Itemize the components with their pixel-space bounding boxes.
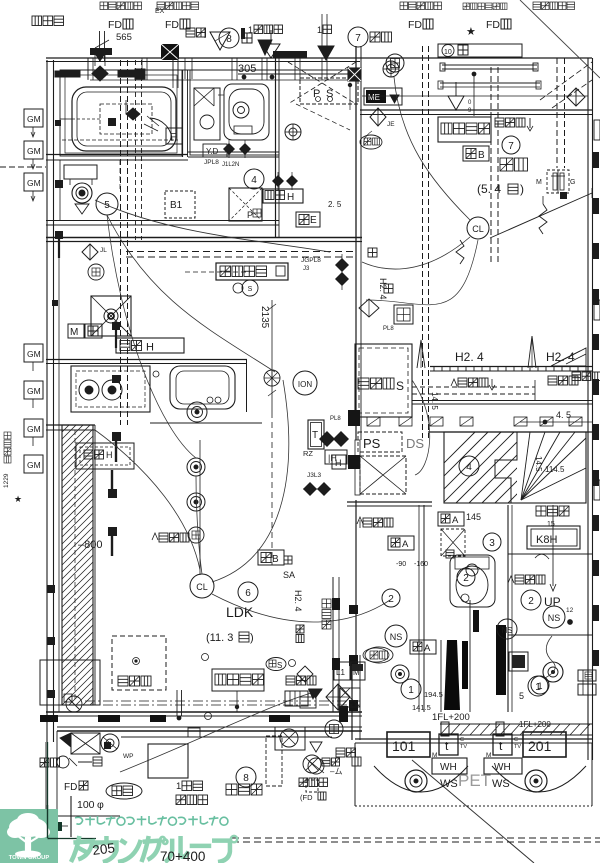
left wall black T marks [55, 118, 116, 258]
PS DS labels [358, 432, 424, 452]
bathtub [60, 87, 176, 151]
hatch band corner bottom [40, 660, 100, 705]
floor dir LDK [152, 533, 189, 542]
svg-text:6: 6 [245, 588, 251, 599]
swoop bath to hall [95, 200, 330, 252]
swoop pet curve [412, 380, 430, 475]
svg-text:P: P [313, 88, 320, 100]
circled 1 b [531, 676, 549, 694]
svg-text:CL: CL [196, 582, 208, 592]
meter circle mid [391, 665, 409, 683]
tenB box LDK [258, 550, 284, 565]
wall bottom right block [355, 739, 592, 743]
wall balcony hatched below yoshitsu [430, 367, 592, 372]
svg-text:F: F [170, 132, 176, 143]
num 14.5 [430, 392, 439, 410]
svg-text:1: 1 [537, 681, 542, 691]
ikkaiyou label [176, 781, 208, 805]
frame corner over logo [48, 805, 59, 839]
terrace label [226, 784, 262, 795]
svg-text:GM: GM [27, 178, 41, 188]
svg-text:Y.D: Y.D [206, 147, 219, 156]
dim line 305 [238, 63, 356, 79]
kabemikiri box right [438, 117, 491, 142]
yoshitsu horiz line [362, 95, 588, 97]
speaker sym3 [187, 493, 205, 511]
svg-text:B1: B1 [170, 200, 183, 211]
rei circle bottom [325, 720, 343, 738]
dashed line hall [185, 271, 250, 273]
wall ldk closet double [347, 502, 432, 506]
rei circle top [386, 54, 404, 72]
svg-text:194.5: 194.5 [424, 690, 443, 699]
LDK label [206, 604, 254, 644]
svg-text:RZ: RZ [303, 449, 313, 458]
yuka-ue label [186, 28, 206, 38]
GM meter box mid 4 [24, 455, 43, 473]
tesuri label [536, 506, 569, 516]
P-ou box [229, 188, 262, 221]
num 145 [466, 512, 481, 522]
manji box small [359, 299, 413, 332]
svg-text:CL: CL [472, 224, 484, 234]
NS circle stairhall [543, 521, 574, 628]
svg-text:14. 5: 14. 5 [430, 392, 439, 410]
gaikouyou label [32, 16, 64, 26]
swoop hall to kitchen [107, 215, 275, 372]
rei circle2 [264, 370, 280, 386]
circled 6 [238, 582, 258, 602]
svg-text:H2. 4: H2. 4 [293, 590, 303, 612]
wall stair top [428, 431, 592, 433]
wall bottom left double band [46, 712, 362, 731]
201 box [523, 732, 566, 757]
swoop CL down [362, 237, 470, 269]
svg-text:14.5: 14.5 [534, 456, 543, 472]
svg-text:K8H: K8H [536, 534, 557, 546]
circled 2 stairhall [521, 590, 541, 610]
svg-text:TV: TV [514, 744, 521, 750]
svg-text:J3L3: J3L3 [307, 472, 321, 479]
monohoshi ladder box [285, 689, 318, 706]
svg-text:FD: FD [64, 782, 77, 793]
kuchiB boxes [578, 670, 596, 695]
GM meter box top 3 [24, 173, 43, 201]
yukaue bottom [336, 748, 361, 766]
circled 4 small [233, 280, 258, 296]
GM meter box mid 2 [24, 381, 43, 408]
pergola diamond [326, 684, 350, 722]
black bar under stairhall [496, 625, 506, 695]
T box [307, 416, 349, 479]
WH box mid [325, 450, 347, 464]
slogan hitowo machiwo [75, 816, 228, 826]
svg-text:A: A [402, 539, 409, 550]
top texts raku1 [100, 2, 199, 10]
svg-text:NS: NS [548, 613, 561, 623]
fd box bottom [60, 733, 188, 778]
wall left outer double [47, 60, 54, 742]
monohoshi dashed box [112, 636, 166, 690]
svg-text:5: 5 [519, 691, 524, 701]
room line ldk [58, 242, 60, 712]
svg-text:JE: JE [387, 121, 395, 128]
svg-text:15: 15 [547, 521, 555, 528]
wall washroom bottom [188, 152, 279, 157]
utility frame [300, 645, 441, 680]
svg-text:4: 4 [251, 175, 257, 186]
svg-text:WP: WP [123, 753, 133, 760]
svg-text:P: P [247, 210, 253, 220]
top black diamond [92, 55, 108, 81]
svg-text:FD: FD [486, 19, 500, 31]
dashed overhang band [126, 252, 356, 258]
town group logo [0, 809, 58, 863]
top triangle marker3 [448, 82, 464, 110]
svg-text:C: C [460, 737, 464, 743]
svg-text:–ム: –ム [330, 767, 342, 776]
svg-text:ME: ME [368, 93, 380, 102]
circled 3 [483, 533, 501, 551]
swoop left long [196, 476, 202, 574]
svg-text:NS: NS [501, 626, 512, 635]
top beam yoshitsu [440, 63, 538, 71]
meter circle b [525, 770, 547, 792]
svg-text:GM: GM [27, 386, 41, 396]
speaker sym2 [187, 458, 205, 476]
svg-text:1: 1 [408, 685, 414, 696]
svg-text:A: A [424, 643, 431, 654]
gesui vertical text [3, 432, 11, 488]
svg-text:B: B [272, 554, 279, 565]
room line washroom inner [190, 70, 279, 155]
svg-text:(11. 3: (11. 3 [206, 632, 233, 644]
svg-text:1: 1 [248, 25, 253, 35]
svg-text:JL: JL [100, 247, 107, 254]
terrace inner dashes [46, 731, 282, 816]
bath inner dashes [62, 139, 178, 141]
wall wc bottom double [46, 221, 279, 226]
svg-text:FD: FD [108, 19, 122, 31]
circled 1 a [401, 679, 421, 699]
stair arrow UP [535, 505, 561, 609]
kyuto H box [116, 338, 184, 354]
townGroup watermark katakana [71, 836, 237, 862]
svg-text:GM: GM [27, 114, 41, 124]
H2.4 right [546, 350, 575, 364]
svg-text:305: 305 [238, 63, 256, 75]
svg-text:145: 145 [466, 512, 481, 522]
jinka label [40, 756, 102, 768]
wall vertical dashed pair x425 [423, 46, 429, 438]
svg-text:S: S [248, 286, 253, 293]
wall yoshitsu top double [360, 110, 592, 115]
jinka circle bottom [303, 755, 342, 776]
svg-text:EX: EX [155, 8, 165, 15]
svg-text:PL8: PL8 [383, 326, 394, 332]
YD box [203, 144, 227, 157]
utility left symbols [300, 742, 326, 802]
circled 7 top [348, 27, 392, 47]
svg-text:NS: NS [390, 632, 403, 642]
yoshitsu label [500, 158, 528, 171]
ME black box [364, 88, 402, 105]
swoop center long [212, 380, 289, 582]
kucho oval [360, 135, 382, 149]
svg-text:205: 205 [92, 840, 116, 858]
svg-text:J3: J3 [303, 266, 310, 272]
bottom 205 [92, 840, 116, 858]
svg-text:8: 8 [243, 773, 249, 784]
manji box dashed right [536, 170, 575, 193]
svg-text:TOWN GROUP: TOWN GROUP [9, 855, 50, 861]
outdoor unit fan [275, 727, 305, 750]
svg-text:FD: FD [165, 19, 179, 31]
wall kitchen top double [46, 360, 247, 364]
dashed double bottom [232, 838, 600, 842]
circled 4 stair [459, 456, 479, 476]
svg-text:★: ★ [14, 494, 22, 504]
wall top main line [46, 58, 592, 62]
num 4.5 right [520, 410, 592, 424]
-800 label [78, 539, 102, 551]
svg-text:JPL8: JPL8 [204, 159, 219, 166]
wall x336 lower [332, 577, 340, 712]
swoop LDK big [95, 215, 200, 570]
star left [14, 494, 22, 504]
washbasin hall [285, 124, 301, 140]
swoop bottom left [120, 690, 322, 772]
F box [166, 128, 182, 144]
room line bath inner [60, 70, 182, 156]
GM meter box mid 1 [24, 344, 43, 371]
diamond below ME [364, 108, 396, 146]
dark box stairhall [509, 652, 528, 671]
svg-text:M: M [70, 327, 78, 338]
dashed pair x494 [491, 67, 498, 262]
right wall tick marks [592, 152, 599, 666]
kitchen burners [79, 380, 122, 400]
nurien dashed band [412, 380, 535, 400]
squiggle stairhall [545, 636, 555, 678]
svg-text:★: ★ [466, 26, 476, 38]
hatched wall band [62, 401, 93, 740]
svg-text:PS: PS [363, 436, 381, 451]
tenB box right [463, 146, 489, 161]
svg-text:H2. 4: H2. 4 [546, 350, 575, 364]
svg-text:H: H [146, 342, 154, 354]
swoop top right [394, 77, 470, 220]
svg-text:PL8: PL8 [330, 416, 341, 422]
svg-text:TV: TV [460, 744, 467, 750]
tenA box 3 [410, 640, 436, 654]
top EX black box [155, 8, 179, 60]
svg-text:7: 7 [355, 33, 361, 44]
svg-text:DS: DS [406, 436, 424, 451]
black sq bottom [48, 742, 112, 839]
svg-text:70+400: 70+400 [160, 849, 205, 863]
svg-text:(FD: (FD [300, 793, 313, 802]
ga below [284, 556, 292, 564]
svg-text:M: M [536, 179, 542, 186]
room line top inner1 [60, 70, 360, 80]
svg-text:S: S [396, 379, 404, 393]
star top [466, 26, 476, 38]
top right angled line [520, 0, 600, 108]
zigzag right [539, 196, 547, 234]
tenE box [296, 212, 320, 227]
washer pan [91, 296, 131, 336]
svg-text:565: 565 [116, 32, 132, 43]
svg-text:141.5: 141.5 [412, 703, 431, 712]
wall hall bottom thick [46, 238, 362, 242]
floor dir mid [360, 518, 393, 528]
wall vertical dashed pair x124 [121, 60, 128, 425]
left wall black T marks2 [52, 300, 120, 383]
svg-text:2: 2 [528, 596, 534, 607]
top triangle marker2 [241, 14, 334, 60]
svg-text:LDK: LDK [226, 604, 254, 620]
spike left [417, 340, 425, 368]
entrance hatch strip [440, 724, 592, 735]
svg-text:JGPL8: JGPL8 [301, 257, 321, 264]
NS circle [497, 619, 517, 639]
top triangle marker1 [210, 30, 280, 58]
svg-text:114.5: 114.5 [545, 465, 565, 474]
swoop ldk right [212, 594, 390, 622]
KSH box [527, 526, 580, 549]
RZ label [303, 449, 313, 458]
toilet lower right [450, 555, 495, 607]
rei circle [88, 264, 104, 280]
stair hall walls [508, 505, 592, 712]
WH boxes [432, 758, 522, 774]
svg-text:H: H [335, 458, 342, 468]
svg-text:H: H [106, 450, 113, 460]
wall y402 [412, 401, 592, 405]
svg-text:3: 3 [489, 538, 495, 549]
CL circle LDK [190, 574, 214, 598]
svg-text:-90: -90 [396, 561, 406, 568]
toilet washroom [194, 84, 269, 140]
agarikamachi [299, 778, 328, 787]
circled 8 bottom [236, 767, 256, 787]
svg-text:1FL+200: 1FL+200 [432, 712, 470, 723]
ION circle [293, 371, 317, 395]
svg-text:J1L2N: J1L2N [222, 162, 239, 168]
powercon box [216, 263, 288, 280]
yuka right edge [572, 372, 600, 381]
meter circle stairhall [543, 662, 563, 682]
bottom 70+400 [160, 849, 205, 863]
spine black chunks [348, 410, 360, 711]
wall bath bottom double [46, 155, 188, 161]
svg-text:7: 7 [508, 141, 514, 152]
meter column symbols [297, 666, 360, 708]
svg-text:GM: GM [27, 424, 41, 434]
svg-text:4. 5: 4. 5 [556, 410, 571, 420]
GM meter box top 1 [24, 109, 43, 137]
heater M box [68, 324, 102, 338]
top dim ticks 565 [94, 31, 132, 61]
ikkai yukashita [248, 25, 283, 35]
svg-text:WH: WH [440, 762, 457, 773]
svg-text:12: 12 [566, 607, 574, 614]
svg-text:SA: SA [283, 570, 295, 580]
cl vertical text [368, 248, 393, 300]
circled 2 right [457, 568, 475, 586]
svg-text:101: 101 [392, 738, 416, 754]
terrace front line [121, 728, 332, 737]
101 box [387, 732, 430, 757]
ue yukahoukou [508, 575, 545, 584]
right diamond top [567, 88, 585, 106]
tategutoi pair [177, 690, 182, 720]
svg-text:WS: WS [440, 778, 458, 790]
JGPL8 diamonds [301, 254, 349, 290]
tokonoma label [451, 378, 495, 390]
svg-text:10: 10 [444, 49, 452, 56]
svg-text:H2. 4: H2. 4 [455, 350, 484, 364]
diamond pair JL [82, 244, 107, 260]
rei circle3 [188, 527, 204, 543]
ikkai right [317, 25, 332, 35]
wall vertical dashed pair x571 [557, 58, 565, 168]
PS box [288, 62, 358, 130]
svg-text:2. 5: 2. 5 [328, 200, 342, 209]
svg-text:1: 1 [176, 781, 181, 792]
JCL label [204, 140, 251, 168]
kyusui H box [263, 189, 342, 209]
svg-text:): ) [250, 632, 254, 644]
svg-text:2: 2 [388, 594, 394, 605]
kishidome oval [106, 783, 142, 799]
t boxes [432, 734, 521, 759]
svg-text:–800: –800 [78, 539, 102, 551]
svg-text:(5. 4: (5. 4 [477, 182, 501, 196]
meter arcs [374, 720, 586, 792]
tenA box 1 [396, 512, 465, 568]
slash windows row [367, 417, 582, 426]
spike right [528, 336, 536, 368]
svg-text:GM: GM [27, 146, 41, 156]
kabemikiri box bottom [202, 654, 317, 720]
svg-text:C: C [514, 737, 518, 743]
hatch band top walls [46, 425, 95, 430]
yukahoko right stair [446, 376, 578, 558]
svg-text:PET: PET [458, 771, 491, 790]
mono-ire box with X [355, 440, 406, 495]
room line wc area [60, 160, 120, 220]
svg-text:FD: FD [408, 19, 422, 31]
svg-text:4: 4 [466, 462, 472, 473]
top black fitting bar1 [55, 71, 80, 77]
B1 dashed box [165, 191, 195, 218]
wall center spine [352, 46, 361, 740]
garari vertical [322, 599, 331, 629]
top window lines left [88, 58, 192, 88]
svg-text:H: H [287, 192, 294, 203]
GM meter box top 2 [24, 141, 43, 169]
SA vertical [283, 570, 304, 643]
bottom right outer [355, 743, 592, 806]
circled 8 top [219, 28, 252, 48]
FD-mu labels [108, 19, 511, 31]
top beam lower [348, 81, 541, 110]
svg-text:B: B [478, 150, 485, 161]
GM dashed feed line [0, 166, 46, 168]
wall right outer double [588, 58, 593, 760]
